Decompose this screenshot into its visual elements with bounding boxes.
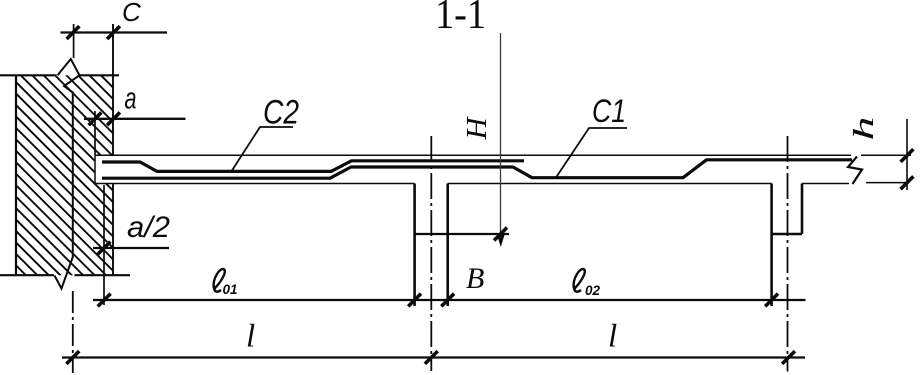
- rebar mesh C1 (bottom bar): [102, 160, 852, 178]
- middle support centerline: [430, 136, 432, 371]
- svg-text:C: C: [122, 0, 141, 27]
- tick at wall axis: [66, 351, 79, 364]
- wall left edge: [15, 75, 17, 275]
- middle support left edge: [413, 184, 416, 307]
- slab end inside wall: [94, 155, 96, 183]
- slab bottom edge: [95, 182, 907, 185]
- right support right edge: [801, 184, 804, 235]
- leader line for C2: [231, 127, 293, 172]
- dimension a: extension line at slab end: [94, 111, 96, 155]
- svg-text:1-1: 1-1: [435, 0, 486, 38]
- dimension a: tick left: [89, 112, 102, 125]
- wall top edge: [0, 74, 119, 76]
- tick at bearing middle: [98, 294, 111, 307]
- dimension a/2: dimension line: [93, 247, 169, 249]
- svg-text:B: B: [466, 262, 484, 295]
- dimension H: horizontal line: [414, 233, 509, 235]
- dimension H: vertical line: [500, 33, 502, 236]
- clear-span dimension line (l01 / B / l02): [93, 299, 806, 301]
- svg-text:a/2: a/2: [127, 211, 170, 244]
- svg-text:l: l: [608, 319, 617, 355]
- tick at middle support left: [408, 294, 421, 307]
- middle support right edge: [446, 184, 449, 307]
- svg-text:H: H: [461, 115, 493, 140]
- label l02 (script ell + subscript): [574, 269, 601, 298]
- leader line for C1: [556, 128, 627, 178]
- wall break line (jagged cut through wall): [55, 59, 80, 289]
- right support centerline: [787, 136, 789, 372]
- tick at right axis: [782, 351, 795, 364]
- right support step: [772, 233, 803, 235]
- dimension h: extension line: [906, 119, 908, 190]
- axis-span dimension line (l / l): [62, 356, 805, 358]
- dimension a/2: extension line at bearing middle: [103, 185, 105, 305]
- wall (hatched masonry): [16, 75, 113, 275]
- dimension C: tick right: [107, 26, 120, 39]
- svg-text:02: 02: [585, 283, 601, 298]
- svg-text:C2: C2: [263, 94, 299, 132]
- tick at middle axis: [425, 351, 438, 364]
- svg-text:C1: C1: [592, 93, 626, 129]
- dimension C: tick left: [67, 26, 80, 39]
- tick at right support left: [765, 294, 778, 307]
- wall axis centerline (below wall): [72, 291, 74, 373]
- wall bottom edge: [0, 274, 130, 276]
- svg-text:l: l: [246, 319, 255, 355]
- dimension C: dimension line: [61, 31, 168, 33]
- wall right edge / extension line of dim C: [112, 24, 114, 275]
- dimension H: arrow at corner: [494, 228, 507, 241]
- svg-text:a: a: [125, 81, 137, 116]
- dimension a/2: tick: [98, 242, 111, 255]
- label l01 (script ell + subscript): [214, 269, 238, 297]
- tick at middle support right: [441, 294, 454, 307]
- svg-text:01: 01: [223, 282, 238, 297]
- dimension a: dimension line: [84, 118, 186, 120]
- dimension a: tick right: [107, 112, 120, 125]
- dimension h: tick top: [901, 149, 914, 162]
- dimension C: extension line at wall axis: [73, 24, 75, 58]
- right support left edge: [770, 184, 773, 307]
- dimension h: tick bottom: [901, 176, 914, 189]
- slab top edge: [95, 154, 911, 156]
- slab break symbol (right end): [848, 157, 862, 185]
- svg-text:h: h: [848, 117, 880, 141]
- rebar mesh C2 (top bar): [102, 161, 524, 172]
